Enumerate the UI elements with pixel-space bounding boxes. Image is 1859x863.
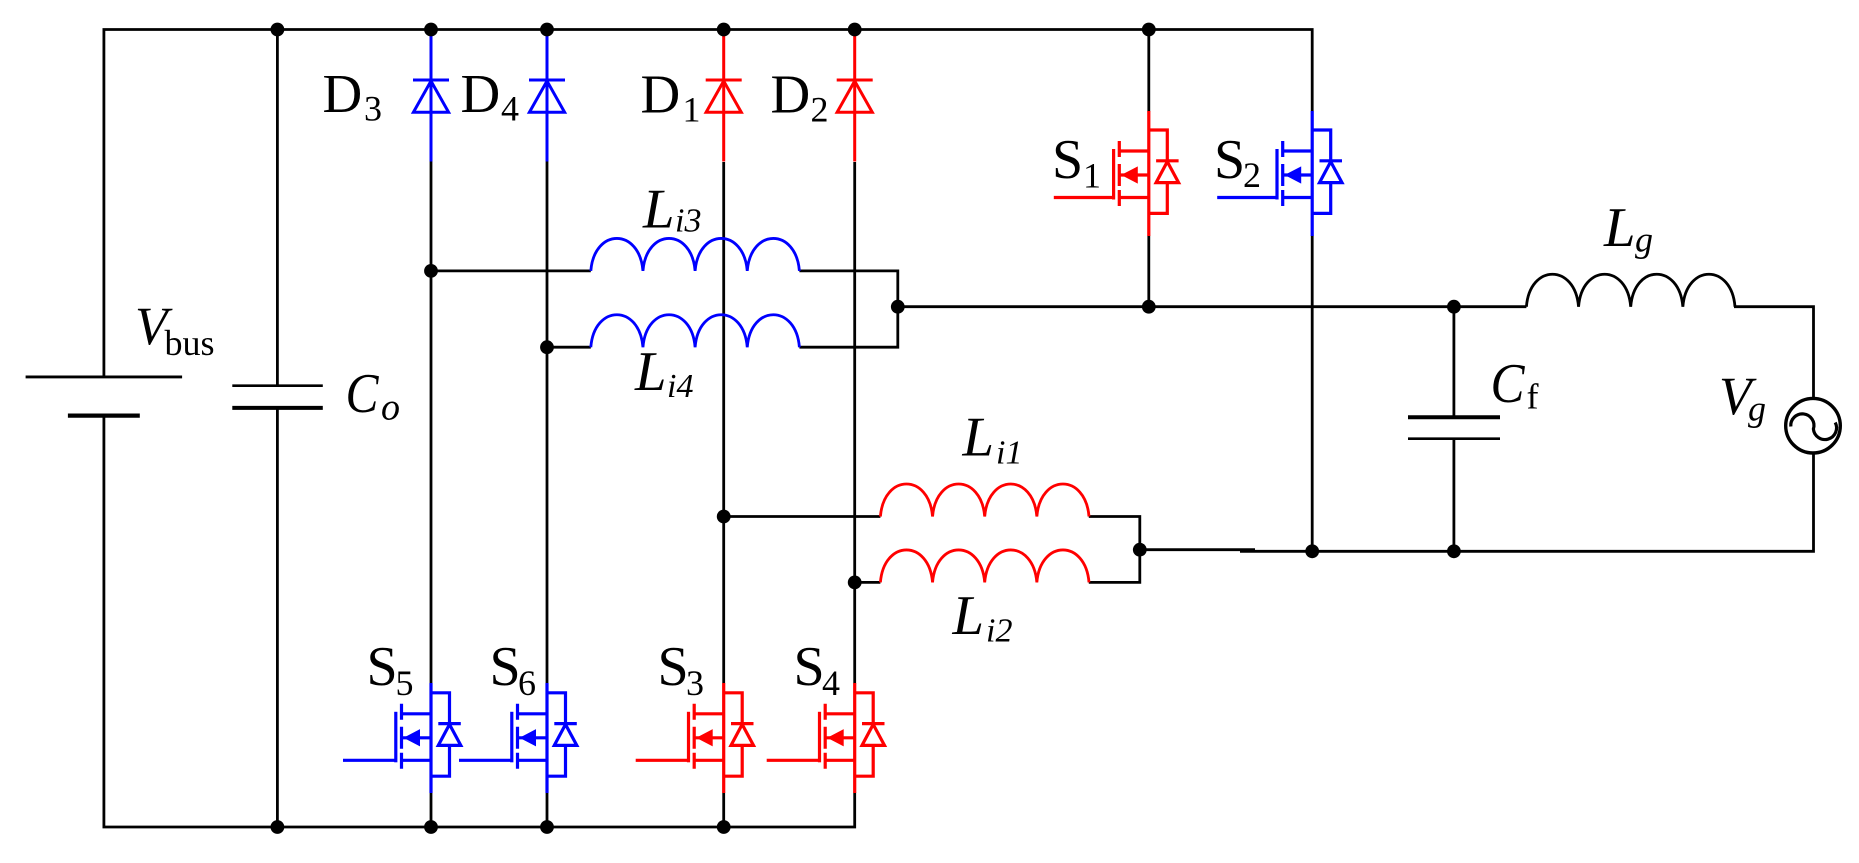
svg-text:S: S bbox=[794, 636, 825, 698]
wire: S2 source to lower rail bbox=[1311, 236, 1314, 552]
wire: Co bottom stub bbox=[276, 408, 279, 827]
wire: D2 cathode column to S4 bbox=[853, 162, 856, 684]
svg-text:bus: bus bbox=[165, 323, 215, 363]
wire: node B to Li4 bbox=[547, 346, 591, 349]
svg-text:f: f bbox=[1527, 377, 1539, 417]
svg-text:4: 4 bbox=[501, 89, 519, 129]
wire: Cf top stub bbox=[1453, 307, 1456, 418]
mosfet S4 bbox=[767, 683, 885, 793]
node: top rail / D1 bbox=[717, 23, 731, 37]
node: top rail / D3 bbox=[424, 23, 438, 37]
inductor Li4 bbox=[591, 315, 800, 347]
svg-text:L: L bbox=[961, 407, 994, 469]
mosfet S2 bbox=[1217, 111, 1342, 236]
diode D1 bbox=[706, 29, 742, 162]
node: S1 / mid rail bbox=[1142, 300, 1156, 314]
svg-text:D: D bbox=[771, 64, 811, 125]
svg-text:i1: i1 bbox=[996, 435, 1022, 472]
svg-text:D: D bbox=[461, 63, 501, 124]
node: bottom rail / Co bbox=[271, 820, 285, 834]
svg-text:D: D bbox=[323, 63, 363, 124]
node: bottom rail / S3 bbox=[717, 820, 731, 834]
wire: D3 cathode column to S5 bbox=[430, 161, 433, 684]
node: D4 column / Li4 bbox=[540, 340, 554, 354]
svg-text:S: S bbox=[1214, 129, 1245, 191]
svg-text:i4: i4 bbox=[667, 368, 693, 405]
capacitor Co bottom plate bbox=[232, 406, 322, 410]
svg-text:S: S bbox=[658, 636, 689, 698]
svg-text:g: g bbox=[1748, 389, 1766, 429]
node: top rail / Co bbox=[271, 23, 285, 37]
wire: Co top stub bbox=[276, 30, 279, 386]
svg-text:i2: i2 bbox=[986, 613, 1012, 650]
wire: node C to Li1 bbox=[724, 515, 881, 518]
wire: Li1/Li2 right joiner bbox=[1089, 517, 1140, 583]
svg-text:L: L bbox=[642, 179, 675, 241]
svg-text:L: L bbox=[634, 341, 667, 403]
wire: Cf bottom stub bbox=[1453, 439, 1456, 552]
svg-text:D: D bbox=[641, 64, 681, 125]
svg-text:S: S bbox=[367, 636, 398, 698]
svg-text:5: 5 bbox=[396, 663, 414, 703]
node: bottom rail / S6 bbox=[540, 820, 554, 834]
svg-text:S: S bbox=[490, 636, 521, 698]
inductor Lg bbox=[1526, 274, 1735, 306]
node: Cf / mid rail bbox=[1447, 300, 1461, 314]
wire: S1 source to mid rail bbox=[1147, 236, 1150, 307]
wire: D4 cathode column to S6 bbox=[546, 161, 549, 684]
wire: D1 cathode column to S3 bbox=[722, 162, 725, 684]
wire: left bus + top rail + S2 drain stub bbox=[104, 30, 1312, 377]
inductor Li3 bbox=[591, 238, 800, 270]
svg-text:C: C bbox=[1491, 353, 1526, 415]
node: D2 column / Li2 bbox=[848, 576, 862, 590]
node: D1 column / Li1 bbox=[717, 510, 731, 524]
svg-text:2: 2 bbox=[811, 90, 829, 130]
wire: S3 source to bottom rail bbox=[722, 793, 725, 828]
svg-text:i3: i3 bbox=[675, 203, 701, 240]
wire: Vg bottom to lower rail bbox=[1240, 453, 1814, 552]
ac source Vg sine bbox=[1791, 414, 1837, 440]
wire: S5 source to bottom rail bbox=[430, 793, 433, 828]
svg-text:o: o bbox=[381, 387, 400, 429]
svg-text:L: L bbox=[951, 585, 984, 647]
svg-text:3: 3 bbox=[364, 89, 382, 129]
mosfet S6 bbox=[459, 683, 577, 793]
diode D4 bbox=[529, 29, 565, 162]
svg-text:6: 6 bbox=[518, 663, 536, 703]
battery V_bus positive plate bbox=[26, 375, 183, 378]
node: Li1-Li2 junction bbox=[1133, 543, 1147, 557]
node: bottom rail / S5 bbox=[424, 820, 438, 834]
inductor Li1 bbox=[880, 484, 1089, 516]
svg-text:1: 1 bbox=[683, 90, 701, 130]
mosfet S3 bbox=[636, 683, 754, 793]
node: S2 / lower rail bbox=[1305, 544, 1319, 558]
capacitor Co top plate bbox=[232, 384, 322, 387]
mosfet S1 bbox=[1054, 111, 1179, 236]
svg-text:C: C bbox=[346, 363, 380, 425]
wire: battery negative to bottom rail to S4 source stub bbox=[104, 416, 855, 827]
wire: node A to Li3 bbox=[431, 269, 591, 272]
ac source Vg circle bbox=[1786, 398, 1841, 453]
svg-text:L: L bbox=[1603, 197, 1636, 259]
svg-text:g: g bbox=[1635, 220, 1653, 260]
svg-text:4: 4 bbox=[822, 663, 840, 703]
diode D2 bbox=[837, 29, 873, 162]
wire: lower rail segment from Li junction bbox=[1140, 548, 1255, 551]
svg-text:3: 3 bbox=[686, 663, 704, 703]
svg-text:S: S bbox=[1052, 129, 1083, 191]
wire: S1 drain stub bbox=[1147, 30, 1150, 112]
node: top rail / D4 bbox=[540, 23, 554, 37]
node: top rail / D2 bbox=[848, 23, 862, 37]
battery V_bus negative plate bbox=[68, 414, 140, 418]
node: Li3-Li4 junction bbox=[891, 300, 905, 314]
capacitor Cf top plate bbox=[1408, 415, 1500, 419]
wire: Lg to Vg top bbox=[1734, 307, 1814, 399]
wire: node D to Li2 bbox=[855, 581, 881, 584]
mosfet S5 bbox=[343, 683, 461, 793]
diode D3 bbox=[413, 29, 449, 162]
node: top rail / S1 bbox=[1142, 23, 1156, 37]
wire: Li3/Li4 right joiner bbox=[799, 271, 897, 347]
inductor Li2 bbox=[880, 550, 1089, 582]
node: Cf / lower rail bbox=[1447, 544, 1461, 558]
wire: mid rail bbox=[898, 305, 1527, 308]
node: D3 column / Li3 bbox=[424, 264, 438, 278]
svg-text:1: 1 bbox=[1083, 156, 1101, 196]
capacitor Cf bottom plate bbox=[1408, 437, 1500, 440]
svg-text:2: 2 bbox=[1243, 155, 1261, 195]
wire: S6 source to bottom rail bbox=[546, 793, 549, 828]
